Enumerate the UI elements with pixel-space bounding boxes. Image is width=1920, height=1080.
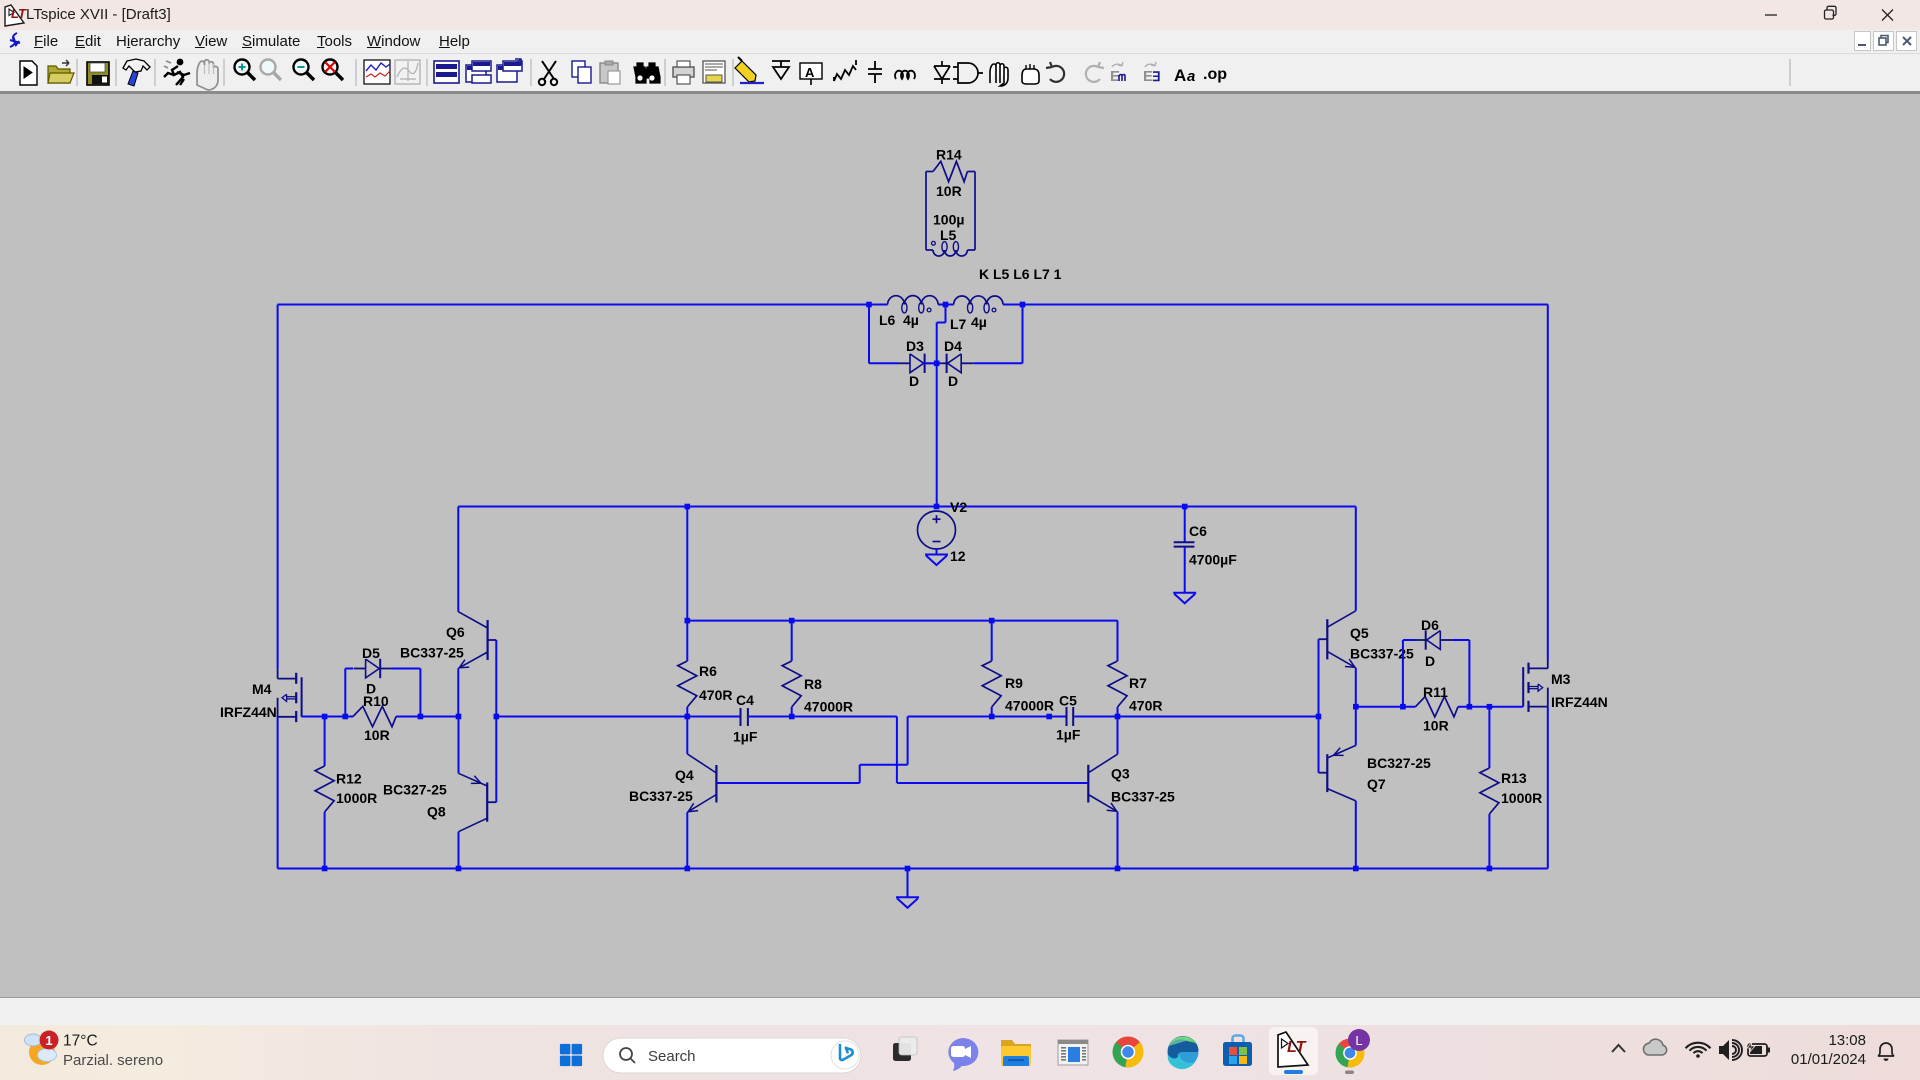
svg-text:1: 1 — [45, 1033, 52, 1048]
svg-text:13:08: 13:08 — [1828, 1032, 1866, 1049]
svg-text:01/01/2024: 01/01/2024 — [1791, 1051, 1866, 1068]
svg-text:Parzial. sereno: Parzial. sereno — [63, 1052, 163, 1069]
svg-text:17°C: 17°C — [63, 1033, 98, 1050]
svg-text:LT: LT — [1287, 1039, 1307, 1056]
svg-text:Search: Search — [648, 1048, 696, 1065]
svg-text:L: L — [1355, 1033, 1362, 1048]
